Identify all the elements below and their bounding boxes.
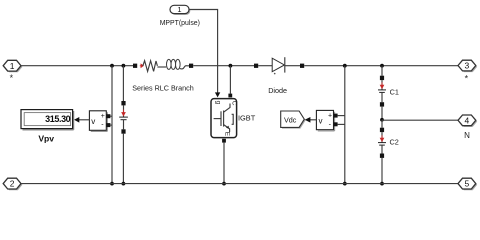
- wire: top lead of C1: [381, 66, 383, 76]
- svg-text:2: 2: [10, 179, 15, 189]
- inductor L coil: [167, 59, 172, 69]
- svg-text:MPPT(pulse): MPPT(pulse): [160, 20, 200, 27]
- node: junction at x=344.8 top bus: [343, 64, 347, 68]
- wire: RLC to diode: [193, 65, 254, 67]
- wire: v1 plus stub: [110, 115, 112, 117]
- node: junction at x=123.4 on bottom bus: [122, 182, 126, 186]
- node: junction at x=123.4 on top bus: [122, 64, 126, 68]
- diode D1: [254, 57, 304, 74]
- voltage measurement U1 (Vpv sensor): [89, 111, 110, 132]
- node: junction at x=382 bottom bus: [380, 182, 384, 186]
- svg-text:1: 1: [10, 61, 15, 71]
- svg-text:Series RLC Branch: Series RLC Branch: [132, 83, 194, 92]
- svg-text:Diode: Diode: [268, 86, 287, 95]
- svg-text:*: *: [10, 73, 14, 83]
- node: junction at x=382 top bus: [380, 64, 384, 68]
- inport MPPT(pulse): [170, 5, 190, 15]
- wire: port1 to RLC branch (top bus left): [21, 65, 133, 67]
- svg-text:Vpv: Vpv: [38, 133, 54, 143]
- svg-text:N: N: [464, 131, 470, 140]
- port 5 (bottom-right connection port): [458, 178, 477, 190]
- wire: collector drop: [229, 66, 231, 94]
- wire: top lead of input capacitor: [122, 66, 124, 101]
- svg-text:3: 3: [465, 61, 470, 71]
- svg-text:5: 5: [465, 179, 470, 189]
- capacitor C2: [378, 128, 386, 158]
- goto tag Vdc: [281, 111, 306, 129]
- svg-text:1: 1: [177, 5, 181, 14]
- port 4 (N connection port): [458, 115, 477, 127]
- port 2 (bottom-left connection port): [3, 178, 22, 190]
- svg-text:C2: C2: [390, 138, 399, 147]
- wire: bottom bus: [21, 183, 458, 185]
- wire: bottom lead of C2: [381, 158, 383, 184]
- node: junction at x=112 on top bus: [110, 64, 114, 68]
- svg-text:g: g: [215, 101, 222, 105]
- voltage measurement U2 (Vdc sensor): [316, 110, 337, 131]
- node: junction at x=344.8 bottom bus: [343, 182, 347, 186]
- port 1 (top-left connection port): [3, 60, 22, 72]
- svg-text:v: v: [319, 117, 323, 126]
- svg-text:*: *: [465, 73, 469, 83]
- svg-text:C: C: [230, 101, 237, 106]
- transistor IGBT block: [211, 99, 237, 138]
- svg-text:IGBT: IGBT: [238, 113, 256, 122]
- svg-text:+: +: [101, 113, 105, 120]
- svg-text:C1: C1: [390, 88, 399, 97]
- wire: v2 output to Vdc tag with arrowhead: [305, 117, 317, 123]
- wire: emitter to bottom bus: [223, 143, 225, 184]
- display block Vpv (315.30): [21, 110, 74, 130]
- pin C port square above IGBT: [228, 94, 232, 98]
- wire: vertical at x=112 (Vpv measurement tap): [111, 66, 113, 184]
- IGBT internal symbol: [214, 118, 221, 120]
- node: junction at x=224 on bottom bus: [222, 182, 226, 186]
- resistor+inductor block: Series RLC Branch: [133, 59, 193, 71]
- wire: bottom lead of C1: [381, 107, 383, 120]
- wire: MPPT to IGBT gate: [189, 10, 218, 93]
- svg-text:v: v: [91, 117, 95, 126]
- svg-text:+: +: [328, 112, 332, 119]
- svg-text:315.30: 315.30: [45, 114, 71, 124]
- port 3 (top-right connection port): [458, 60, 477, 72]
- node: junction at x=112 on bottom bus: [110, 182, 114, 186]
- wire: bottom lead of input capacitor: [122, 134, 124, 184]
- node: junction at x=230.4 (IGBT collector tap): [229, 64, 233, 68]
- node: junction C1/C2 midpoint: [380, 118, 384, 122]
- wire: v2 minus stub: [338, 123, 345, 125]
- wire: diode to port 3: [304, 65, 458, 67]
- pin E port square below IGBT: [222, 139, 226, 143]
- capacitor Cin (input parallel capacitor branch): [119, 101, 128, 134]
- wire: v2 plus stub: [338, 115, 345, 117]
- svg-text:4: 4: [465, 115, 470, 125]
- capacitor C1: [378, 76, 386, 107]
- pin gate arrowhead: [215, 92, 220, 97]
- resistor R: [143, 61, 158, 72]
- wire: midpoint to port 4: [382, 119, 458, 121]
- wire: vertical at x=344.8 (Vdc measurement tap): [344, 66, 346, 184]
- svg-text:E: E: [224, 132, 231, 137]
- wire: v1 minus stub: [110, 124, 112, 126]
- svg-text:Vdc: Vdc: [284, 115, 297, 124]
- wire: top lead of C2: [381, 120, 383, 128]
- wire: v1 output to display with arrowhead: [74, 117, 89, 123]
